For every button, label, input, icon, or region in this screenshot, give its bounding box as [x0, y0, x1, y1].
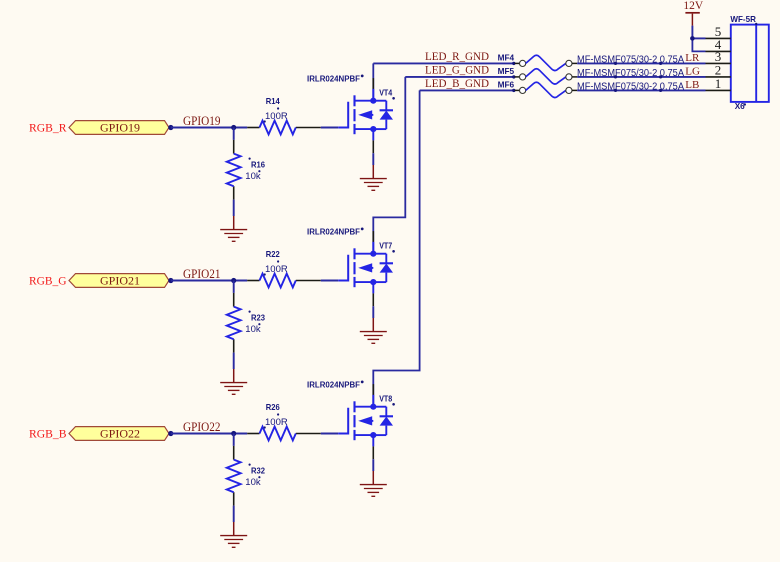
ground: [360, 179, 387, 191]
svg-text:GPIO22: GPIO22: [100, 426, 140, 440]
wire VT7 source: [372, 282, 374, 293]
svg-text:100R: 100R: [265, 417, 288, 428]
svg-text:GPIO21: GPIO21: [183, 267, 221, 281]
ground stub: [372, 165, 374, 179]
svg-text:RGB_B: RGB_B: [29, 426, 67, 440]
wire net LED_R_GND: [373, 62, 513, 64]
svg-text:RGB_G: RGB_G: [29, 273, 67, 287]
ground: [220, 230, 247, 242]
svg-text:MF5: MF5: [498, 67, 515, 76]
node port output junction: [168, 278, 173, 283]
svg-text:10k: 10k: [245, 477, 261, 488]
svg-text:R14: R14: [266, 97, 280, 106]
ground: [220, 536, 247, 548]
wire divider node down to R32: [233, 434, 235, 446]
resistor R32 10k pins: [233, 446, 235, 460]
ground: [220, 383, 247, 395]
svg-text:IRLR024NPBF: IRLR024NPBF: [307, 228, 360, 237]
svg-text:MF4: MF4: [498, 53, 515, 62]
ground stub: [372, 471, 374, 485]
connector pin 1: [706, 89, 731, 91]
svg-text:12V: 12V: [683, 0, 704, 12]
svg-text:X6: X6: [735, 102, 745, 111]
resistor R23 body: [227, 307, 241, 340]
fuse MF5: [512, 69, 577, 84]
svg-text:R32: R32: [251, 466, 265, 475]
resistor R26 100R pins: [247, 433, 259, 435]
resistor R26 body: [260, 427, 296, 441]
resistor R32 body: [227, 460, 241, 493]
svg-text:10k: 10k: [245, 324, 261, 335]
junction at resistor divider node: [231, 278, 236, 283]
wire fuse MF5 to connector: [577, 76, 705, 78]
connector pin 5: [706, 37, 731, 39]
wire net LED_B_GND: [420, 89, 513, 91]
svg-text:R16: R16: [251, 160, 265, 169]
svg-text:VT7: VT7: [379, 241, 392, 250]
svg-text:LG: LG: [685, 66, 700, 78]
wire vertex dots: [614, 62, 617, 65]
wire resistor to gate: [321, 127, 338, 129]
wire R32 to ground: [233, 506, 235, 522]
svg-text:R23: R23: [251, 313, 265, 322]
wire net LED_G_GND: [405, 76, 513, 78]
svg-text:VT4: VT4: [379, 88, 392, 97]
ground stub: [233, 216, 235, 230]
wire R23 to ground: [233, 353, 235, 369]
svg-text:10k: 10k: [245, 171, 261, 182]
svg-text:WF-5R: WF-5R: [730, 15, 756, 24]
wire resistor to gate: [321, 280, 338, 282]
resistor R22 100R pins: [247, 280, 259, 282]
ground stub: [233, 522, 235, 536]
wire VT7 drain to LED_G_GND row: [373, 77, 405, 254]
resistor R16 body: [227, 154, 241, 187]
fuse MF4: [512, 55, 577, 70]
svg-text:RGB_R: RGB_R: [29, 120, 67, 134]
wire GPIO21 horizontal: [171, 280, 247, 282]
wire divider node down to R16: [233, 128, 235, 140]
designator R16: [249, 158, 251, 160]
svg-text:LED_G_GND: LED_G_GND: [425, 62, 489, 76]
svg-text:GPIO19: GPIO19: [183, 114, 221, 128]
ground stub: [372, 318, 374, 332]
wire 12V to pin5/pin4: [691, 26, 693, 39]
svg-text:100R: 100R: [265, 264, 288, 275]
port GPIO21: [69, 274, 169, 288]
wire fuse MF4 to connector: [577, 62, 705, 64]
designator R23: [249, 311, 251, 313]
svg-text:GPIO19: GPIO19: [100, 120, 140, 134]
designator R32: [249, 464, 251, 466]
resistor R16 10k pins: [233, 140, 235, 154]
svg-text:GPIO22: GPIO22: [183, 420, 221, 434]
wire VT8 drain to LED_B_GND row: [373, 90, 419, 407]
junction at resistor divider node: [231, 431, 236, 436]
connector pin 2: [706, 76, 731, 78]
resistor R22 body: [260, 274, 296, 288]
wire VT4 drain to LED_R_GND row: [372, 63, 374, 101]
wire fuse MF6 to connector: [577, 89, 705, 91]
svg-text:100R: 100R: [265, 111, 288, 122]
connector X6 WF-5R: [731, 25, 769, 102]
svg-text:LED_R_GND: LED_R_GND: [425, 49, 489, 63]
wire vertex dots: [614, 89, 617, 92]
svg-text:LB: LB: [685, 79, 699, 91]
port GPIO19: [69, 121, 169, 135]
svg-text:IRLR024NPBF: IRLR024NPBF: [307, 75, 360, 84]
wire GPIO22 horizontal: [171, 433, 247, 435]
resistor R14 body: [260, 121, 296, 135]
wire R16 to ground: [233, 200, 235, 216]
svg-text:LED_B_GND: LED_B_GND: [425, 76, 489, 90]
fuse MF6: [512, 82, 577, 97]
resistor R14 100R pins: [247, 127, 259, 129]
transistor VT8 (IRLR024NPBF): [338, 401, 393, 440]
svg-text:MF6: MF6: [498, 80, 515, 89]
svg-text:R22: R22: [266, 250, 280, 259]
node port output junction: [168, 125, 173, 130]
node port output junction: [168, 431, 173, 436]
wire VT4 source: [372, 129, 374, 140]
svg-text:R26: R26: [266, 403, 280, 412]
wire GPIO19 horizontal: [171, 127, 247, 129]
transistor VT7 (IRLR024NPBF): [338, 248, 393, 287]
port GPIO22: [69, 427, 169, 441]
wire vertex dots: [614, 75, 617, 78]
power port 12V: [685, 12, 699, 14]
wire divider node down to R23: [233, 281, 235, 293]
junction 12V node: [690, 36, 695, 41]
ground: [360, 332, 387, 344]
svg-text:1: 1: [715, 76, 722, 91]
transistor VT4 (IRLR024NPBF): [338, 95, 393, 134]
connector pin 3: [706, 62, 731, 64]
svg-text:LR: LR: [685, 52, 700, 64]
ground stub: [233, 369, 235, 383]
ground: [360, 485, 387, 497]
svg-text:VT8: VT8: [379, 394, 392, 403]
wire resistor to gate: [321, 433, 338, 435]
connector pin 4: [706, 50, 731, 52]
junction at resistor divider node: [231, 125, 236, 130]
resistor R23 10k pins: [233, 293, 235, 307]
svg-text:IRLR024NPBF: IRLR024NPBF: [307, 381, 360, 390]
svg-text:GPIO21: GPIO21: [100, 273, 140, 287]
wire VT8 source: [372, 435, 374, 446]
